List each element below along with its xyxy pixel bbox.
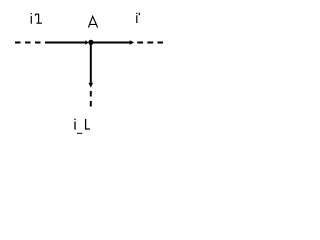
wire: dashed lead-out bottom [90,91,92,107]
wire: solid segment carrying i' out of node [91,42,130,44]
arrowhead: current i_L downward [89,83,94,88]
wire: vertical branch down from node A [90,43,92,83]
arrowhead: current i1 into node A [85,40,88,45]
label i1 [31,13,42,24]
wire: dashed lead-out right [137,42,163,44]
wire: solid segment carrying i1 into node [45,42,86,44]
node A (junction dot) [88,40,93,45]
node label A [88,16,97,27]
arrowhead: current i' to the right [130,40,135,45]
label i' [136,13,140,23]
wire: dashed lead-in left [15,42,41,44]
label i_L [74,119,90,134]
